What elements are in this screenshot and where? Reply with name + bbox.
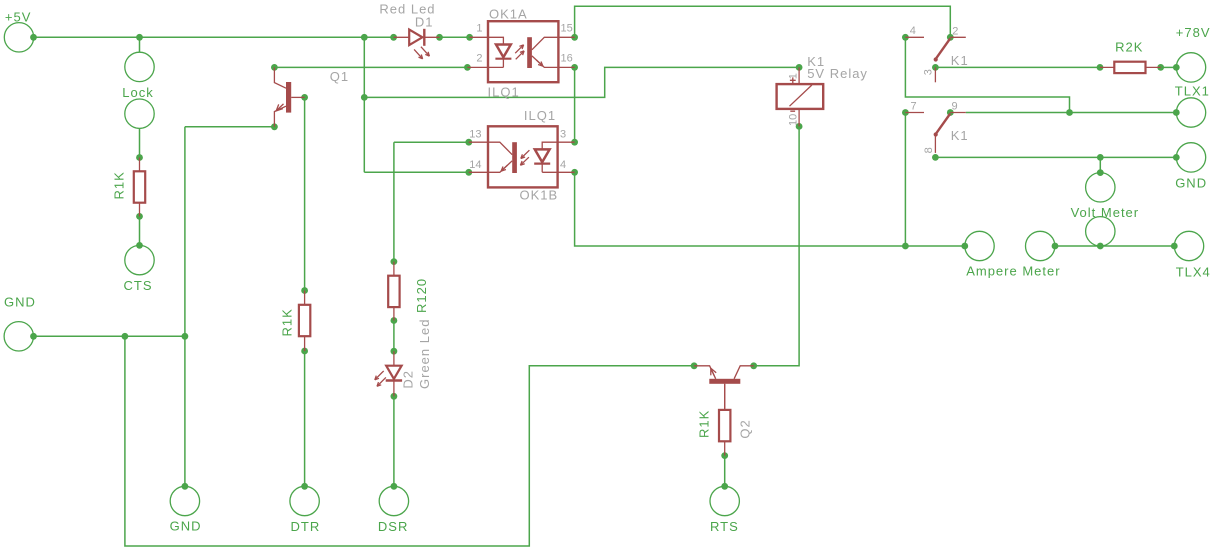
label D1	[415, 15, 434, 30]
LED D2 light arrows	[375, 371, 386, 386]
junction switch1 common	[932, 64, 939, 71]
label +78V	[1176, 25, 1211, 40]
junction OK1A pin 15	[571, 34, 578, 41]
pin 14 OK1B	[469, 159, 481, 171]
relay K1 coil	[777, 67, 824, 126]
pin 1 relay	[788, 73, 800, 79]
junction volt meter top	[1097, 169, 1104, 176]
svg-text:7: 7	[911, 100, 917, 112]
svg-text:3: 3	[560, 129, 566, 141]
svg-text:+5V: +5V	[5, 10, 32, 25]
junction ampere meter right	[1052, 243, 1059, 250]
wire node to relay coil +	[364, 67, 799, 97]
wire R1K to DTR	[304, 351, 306, 486]
svg-text:K1: K1	[951, 128, 969, 143]
junction switch pin 7	[902, 109, 909, 116]
svg-text:8: 8	[923, 147, 935, 153]
svg-text:ILQ1: ILQ1	[524, 108, 556, 123]
wire Lock to R1K	[139, 128, 141, 157]
wire switch2 common to GND port	[935, 156, 1176, 158]
svg-text:OK1B: OK1B	[520, 188, 559, 203]
wire relay coil - to Q2 collector	[754, 126, 799, 365]
junction RTS pad	[721, 483, 728, 490]
svg-text:CTS: CTS	[124, 278, 153, 293]
label GND right	[1175, 175, 1207, 190]
wire ampere meter to TLX4	[1055, 245, 1174, 247]
label R120	[414, 278, 429, 313]
label R1K (RTS)	[697, 410, 712, 438]
svg-text:Lock: Lock	[122, 85, 153, 100]
resistor R120	[388, 262, 399, 321]
label TLX4	[1176, 265, 1211, 280]
label Ampere Meter	[966, 264, 1060, 279]
label DTR	[291, 519, 321, 534]
svg-text:D2: D2	[401, 370, 416, 389]
junction GND right pad	[1173, 154, 1180, 161]
wire Q1 collector to OK1A pin 2	[274, 66, 467, 68]
resistor R1K (RTS)	[719, 384, 730, 456]
pad volt meter lower	[1086, 217, 1115, 246]
wire R2K to +78V port	[1161, 66, 1177, 68]
svg-text:4: 4	[560, 159, 566, 171]
junction Q1 collector	[271, 64, 278, 71]
label CTS	[124, 278, 153, 293]
pad Lock lower	[125, 99, 154, 128]
junction OK1B pin 13	[465, 139, 472, 146]
svg-text:14: 14	[469, 159, 481, 171]
wire OK1B pin 4 down and right	[575, 172, 965, 246]
svg-text:K1: K1	[951, 53, 969, 68]
wire to OK1B pin 14	[364, 171, 469, 173]
wire Q1 emitter left and down to GND pad	[185, 127, 275, 487]
label OK1B	[520, 188, 559, 203]
junction +5V/Lock	[136, 34, 143, 41]
junction Q2 emitter	[691, 362, 698, 369]
LED D2	[386, 351, 402, 396]
wire switch1 common to R2K	[935, 66, 1100, 68]
label K1 switch 1	[951, 53, 969, 68]
svg-text:15: 15	[561, 22, 573, 34]
junction switch pin 4	[902, 34, 909, 41]
switch K1 contact 2	[905, 113, 965, 153]
svg-text:+78V: +78V	[1176, 25, 1211, 40]
port +78V	[1176, 53, 1205, 82]
svg-text:10: 10	[788, 114, 800, 126]
wire GND port right	[34, 335, 185, 337]
port TLX1	[1176, 98, 1205, 127]
pin 9 switch	[952, 101, 958, 113]
junction DSR pad	[391, 483, 398, 490]
wire R1K to CTS	[139, 216, 141, 245]
wire switch pin 9 to TLX1	[966, 112, 1177, 114]
port GND left	[4, 322, 33, 351]
pin 13 OK1B	[469, 129, 481, 141]
svg-text:13: 13	[469, 129, 481, 141]
junction GND net corner	[122, 333, 129, 340]
svg-text:2: 2	[476, 53, 482, 65]
transistor Q1	[274, 67, 304, 126]
junction OK1A pin 16	[571, 64, 578, 71]
wire OK1A pin 15 to switch pin 2	[575, 6, 951, 37]
junction TLX1 pad	[1173, 109, 1180, 116]
junction D2 cathode	[391, 393, 398, 400]
junction switch pin 9	[947, 109, 954, 116]
resistor R2K	[1100, 62, 1161, 73]
label Red Led	[379, 2, 435, 17]
wire OK1A pin 16 to OK1B pin 3	[574, 67, 576, 142]
svg-text:16: 16	[561, 53, 573, 65]
junction TLX4 pad	[1171, 243, 1178, 250]
wire bottom rail to Q2 emitter	[125, 336, 694, 546]
opto OK1B box	[488, 126, 558, 187]
svg-text:D1: D1	[415, 15, 434, 30]
port GND right	[1176, 143, 1205, 172]
junction DTR pad	[301, 483, 308, 490]
label Green Led	[417, 319, 432, 389]
junction R2K right	[1157, 64, 1164, 71]
svg-text:Volt Meter: Volt Meter	[1071, 205, 1140, 220]
svg-text:R120: R120	[414, 278, 429, 313]
junction OK1A pin 2	[464, 64, 471, 71]
svg-text:R1K: R1K	[697, 410, 712, 438]
svg-text:DTR: DTR	[291, 519, 321, 534]
pad ampere meter right	[1026, 231, 1055, 260]
junction relay pin 1	[796, 64, 803, 71]
LED D1 light arrows	[414, 47, 429, 59]
junction Q2 collector	[750, 362, 757, 369]
junction volt meter net	[1097, 154, 1104, 161]
junction OK1B pin 3	[571, 139, 578, 146]
junction ampere meter left	[961, 243, 968, 250]
label +5V	[5, 10, 32, 25]
pin 3 switch	[923, 69, 935, 75]
pad Lock upper	[125, 52, 154, 81]
port DTR	[290, 486, 319, 515]
label OK1A	[489, 7, 528, 22]
svg-text:1: 1	[788, 73, 800, 79]
wire Q1 base down	[304, 97, 306, 290]
label ILQ1 lower	[524, 108, 556, 123]
svg-text:R1K: R1K	[112, 171, 127, 199]
svg-text:4: 4	[910, 25, 916, 37]
pin 15 OK1A	[561, 22, 573, 34]
transistor Q2 legs	[694, 366, 754, 410]
op-amp, opto OK1A box	[488, 21, 558, 82]
svg-text:3: 3	[923, 69, 935, 75]
svg-text:RTS: RTS	[710, 519, 739, 534]
port CTS	[125, 245, 154, 274]
label RTS	[710, 519, 739, 534]
junction +5V port pin	[30, 34, 37, 41]
label GND left	[4, 295, 36, 310]
switch K1 contact 1	[905, 37, 965, 82]
pin 2 OK1A	[476, 53, 482, 65]
label Volt Meter	[1071, 205, 1140, 220]
label K1 switch 2	[951, 128, 969, 143]
resistor R1K (DTR)	[299, 291, 310, 352]
junction OK1A pin 1	[466, 34, 473, 41]
label R1K (DTR)	[280, 308, 295, 336]
wire switch pin 7 down	[904, 113, 906, 247]
wire switch pin 4 to pin 9 net	[905, 37, 1069, 112]
wire D2 to DSR	[393, 396, 395, 486]
junction DTR R1K bottom	[301, 348, 308, 355]
label TLX1	[1175, 84, 1210, 99]
junction switch pin 2	[947, 34, 954, 41]
svg-text:GND: GND	[1175, 175, 1207, 190]
svg-text:TLX4: TLX4	[1176, 265, 1211, 280]
junction relay coil node	[361, 94, 368, 101]
junction Q1 base	[301, 94, 308, 101]
svg-text:OK1A: OK1A	[489, 7, 528, 22]
pin 4 switch	[910, 25, 916, 37]
junction pin4/pin9 net	[1066, 109, 1073, 116]
svg-text:2: 2	[952, 25, 958, 37]
junction GND port pin	[30, 333, 37, 340]
junction OK1B pin 4	[571, 169, 578, 176]
pin 16 OK1A	[561, 53, 573, 65]
label D2	[401, 370, 416, 389]
junction D1 anode	[390, 34, 397, 41]
svg-text:GND: GND	[170, 519, 202, 534]
LED D1	[394, 29, 440, 46]
svg-text:Q2: Q2	[738, 419, 753, 438]
junction R120 bottom	[391, 317, 398, 324]
wire OK1B pin 13 left and down	[394, 142, 469, 261]
label R2K	[1115, 40, 1143, 55]
junction Lock R1K bottom	[136, 213, 143, 220]
wire +5V to Lock	[139, 37, 141, 52]
label K1 relay	[807, 54, 825, 69]
svg-text:9: 9	[952, 101, 958, 113]
svg-text:R2K: R2K	[1115, 40, 1143, 55]
svg-text:GND: GND	[4, 295, 36, 310]
wire +5V down x364 to pin14 row	[363, 37, 365, 172]
junction +5V/x364	[361, 34, 368, 41]
junction R2K left	[1097, 64, 1104, 71]
wire R1K to RTS	[724, 456, 726, 487]
svg-text:TLX1: TLX1	[1175, 84, 1210, 99]
pin 7 switch	[911, 100, 917, 112]
label Q1	[330, 69, 349, 84]
junction Q1 emitter	[271, 123, 278, 130]
junction R120 top	[391, 258, 398, 265]
pad GND bottom	[170, 486, 199, 515]
junction D2 anode	[391, 348, 398, 355]
label 5V Relay	[807, 66, 868, 81]
svg-text:Q1: Q1	[330, 69, 349, 84]
label R1K (Lock-CTS)	[112, 171, 127, 199]
junction relay pin 10	[796, 123, 803, 130]
pad volt meter upper	[1086, 173, 1115, 202]
wire +5V rail	[34, 36, 470, 38]
opto OK1A internals (LED + phototransistor)	[467, 37, 574, 68]
svg-text:R1K: R1K	[280, 308, 295, 336]
junction switch2 common	[932, 154, 939, 161]
pad ampere meter left	[965, 231, 994, 260]
opto OK1B internals (phototransistor + LED)	[469, 142, 575, 173]
junction bottom line / switch pin 7	[902, 243, 909, 250]
resistor R1K (Lock-CTS)	[134, 158, 145, 217]
label Q2	[738, 419, 753, 438]
label GND pad	[170, 519, 202, 534]
label Lock	[122, 85, 153, 100]
port RTS	[710, 486, 739, 515]
pin 1 OK1A	[476, 22, 482, 34]
svg-text:Green Led: Green Led	[417, 319, 432, 389]
wire R120 to D2	[393, 321, 395, 352]
junction Lock R1K top	[136, 154, 143, 161]
junction GND pad	[182, 483, 189, 490]
junction volt meter bottom	[1097, 243, 1104, 250]
port TLX4	[1174, 231, 1203, 260]
label DSR	[378, 519, 408, 534]
pin 4 OK1B	[560, 159, 566, 171]
pin 8 switch	[923, 147, 935, 153]
pin 2 switch	[952, 25, 958, 37]
port +5V	[4, 23, 33, 52]
junction CTS pad	[136, 242, 143, 249]
junction D1 cathode	[436, 34, 443, 41]
pin 3 OK1B	[560, 129, 566, 141]
junction +78V pad	[1173, 64, 1180, 71]
junction GND net / emitter line	[182, 333, 189, 340]
svg-text:Ampere Meter: Ampere Meter	[966, 264, 1060, 279]
port DSR	[379, 486, 408, 515]
junction DTR R1K top	[301, 287, 308, 294]
junction Q2 R1K bottom	[721, 452, 728, 459]
label ILQ1 upper	[488, 85, 520, 100]
svg-text:5V Relay: 5V Relay	[807, 66, 868, 81]
svg-text:1: 1	[476, 22, 482, 34]
svg-text:DSR: DSR	[378, 519, 408, 534]
svg-text:ILQ1: ILQ1	[488, 85, 520, 100]
junction OK1B pin 14	[465, 169, 472, 176]
wire to volt meter	[1099, 157, 1101, 172]
pin 10 relay	[788, 114, 800, 126]
